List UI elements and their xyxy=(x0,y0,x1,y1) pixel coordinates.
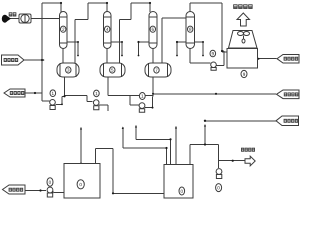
svg-text:0: 0 xyxy=(217,185,220,190)
svg-text:9: 9 xyxy=(212,51,215,56)
svg-text:7: 7 xyxy=(155,68,158,73)
svg-text:9: 9 xyxy=(243,72,246,77)
svg-text:0: 0 xyxy=(180,189,183,194)
svg-text:2: 2 xyxy=(62,27,65,32)
svg-text:8: 8 xyxy=(189,27,192,32)
svg-text:3: 3 xyxy=(67,68,70,73)
svg-text:6: 6 xyxy=(152,27,155,32)
svg-text:0: 0 xyxy=(79,182,82,187)
svg-text:0: 0 xyxy=(49,180,52,185)
svg-text:1: 1 xyxy=(141,94,144,99)
svg-text:4: 4 xyxy=(106,27,109,32)
svg-text:1: 1 xyxy=(95,91,98,96)
svg-text:5: 5 xyxy=(111,68,114,73)
svg-text:1: 1 xyxy=(52,91,55,96)
